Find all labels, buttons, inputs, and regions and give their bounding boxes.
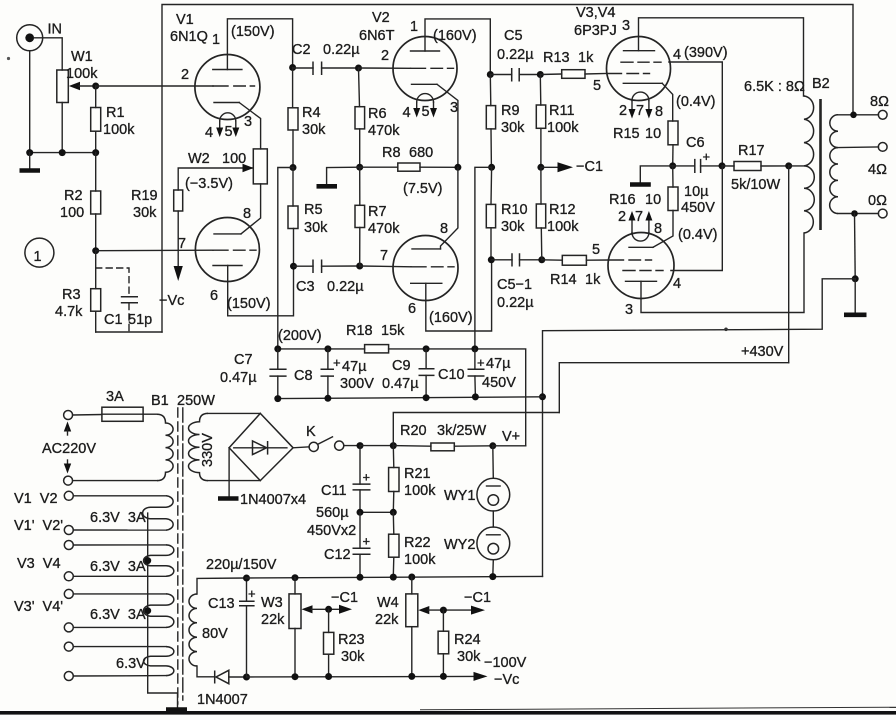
wire +430V horizontal <box>559 363 788 413</box>
R7 leads <box>359 167 361 266</box>
node C11 top <box>357 442 364 449</box>
C6 leads <box>673 165 722 167</box>
svg-text:3k/25W: 3k/25W <box>437 423 486 439</box>
svg-text:560µ: 560µ <box>316 505 349 521</box>
wire terminal 1 <box>73 495 166 497</box>
potentiometer W3 22k <box>261 594 301 629</box>
node V1b grid <box>92 247 99 254</box>
W3 leads <box>294 578 296 677</box>
svg-text:K: K <box>306 424 316 440</box>
svg-text:R20: R20 <box>400 423 427 439</box>
svg-text:C7: C7 <box>234 352 253 368</box>
wire W2 bottom to V1b plate pin 8 <box>241 184 261 234</box>
svg-text:7: 7 <box>178 236 186 252</box>
wire 0 ohm to ground node <box>854 214 857 279</box>
resistor R11 100k <box>536 103 579 136</box>
pentode V3 6P3PJ upper <box>574 5 728 120</box>
-C1 arrow at W4 <box>471 606 485 615</box>
wire R1 leads <box>95 86 97 153</box>
output jack WY2 <box>444 527 510 560</box>
svg-text:R17: R17 <box>738 143 765 159</box>
svg-text:+: + <box>477 355 485 370</box>
triode V2a 6N6T upper <box>359 10 477 121</box>
R22 leads <box>392 512 395 576</box>
svg-text:470k: 470k <box>368 123 400 139</box>
svg-text:R3: R3 <box>62 287 81 303</box>
B1 330V winding <box>189 413 209 480</box>
capacitor C2 0.22u <box>292 42 360 75</box>
V4 heater pin2 arrow <box>631 220 633 233</box>
node R11 R12 junction <box>537 164 544 171</box>
V2a plate bar <box>411 50 440 52</box>
filament winding C <box>144 594 174 628</box>
wire W4 wiper to -C1 <box>428 609 472 611</box>
resistor R24 30k <box>438 631 481 665</box>
node ground line on filter bus <box>539 393 546 400</box>
B2 core <box>819 99 822 230</box>
svg-text:4.7k: 4.7k <box>55 304 83 320</box>
filter bottom bus <box>278 397 543 399</box>
svg-text:30k: 30k <box>501 120 525 136</box>
svg-text:100k: 100k <box>404 552 436 568</box>
svg-text:8: 8 <box>654 221 662 237</box>
svg-text:R24: R24 <box>454 632 481 648</box>
AC220V arrows and label <box>42 422 96 474</box>
svg-text:C9: C9 <box>392 358 411 374</box>
wire terminal 8 <box>73 675 166 677</box>
circled numeral 1 <box>25 238 54 267</box>
W4 leads <box>411 577 413 676</box>
wire terminal 7 <box>73 646 166 648</box>
svg-text:−C1: −C1 <box>464 590 491 606</box>
C7 leads <box>277 349 279 399</box>
resistor R7 470k <box>355 204 400 237</box>
potentiometer W4 22k <box>375 594 418 628</box>
svg-text:−Vc: −Vc <box>494 672 519 688</box>
node R21 R22 mid <box>390 509 397 516</box>
-Vc rail arrow <box>474 672 488 681</box>
R5 leads <box>292 168 295 267</box>
wire 8 ohm tap <box>838 114 879 116</box>
W3 wiper arrow <box>302 605 313 613</box>
svg-text:W4: W4 <box>377 595 399 611</box>
svg-text:5: 5 <box>225 124 233 140</box>
svg-text:0.22µ: 0.22µ <box>497 295 534 311</box>
B1 primary winding <box>157 414 173 480</box>
pentode V4 6P3PJ lower <box>592 209 718 318</box>
svg-text:5k/10W: 5k/10W <box>731 177 780 193</box>
R11 leads <box>539 75 542 168</box>
output jack WY1 <box>444 478 510 511</box>
svg-text:3: 3 <box>450 100 458 116</box>
node R9 R10 junction <box>488 164 495 171</box>
V4 plate lead pin 3 to primary bottom <box>641 233 804 313</box>
svg-text:450V: 450V <box>482 375 516 391</box>
svg-text:R13: R13 <box>543 50 570 66</box>
svg-text:R8: R8 <box>382 145 401 161</box>
svg-text:(−3.5V): (−3.5V) <box>185 176 233 192</box>
node W3 bottom <box>292 673 299 680</box>
svg-text:100k: 100k <box>547 219 579 235</box>
svg-text:(390V): (390V) <box>684 45 728 61</box>
svg-text:0.22µ: 0.22µ <box>497 47 534 63</box>
capacitor C9 0.47u <box>382 358 435 392</box>
node C11 C12 mid <box>357 509 364 516</box>
node R23 bottom <box>325 673 332 680</box>
svg-text:100: 100 <box>222 151 246 167</box>
R6 leads <box>359 68 360 167</box>
svg-text:R11: R11 <box>549 103 575 119</box>
resistor R9 30k <box>486 103 525 136</box>
svg-text:7: 7 <box>636 103 644 119</box>
resistor R5 30k <box>288 202 328 236</box>
V4 screen wire pin 4 <box>671 166 722 271</box>
capacitor C1 51p dashed branch <box>96 268 153 331</box>
scan speck mid <box>724 328 728 332</box>
W2 wiper arrow <box>243 164 254 172</box>
node C9 bottom <box>423 394 430 401</box>
resistor R6 470k <box>355 106 400 139</box>
svg-text:R7: R7 <box>368 204 387 220</box>
wire diode to C13 bottom node <box>229 676 247 678</box>
resistor R12 100k <box>536 202 579 235</box>
capacitor C5 0.22u <box>497 28 534 82</box>
node primary centre tap <box>785 162 792 169</box>
node R10 bottom / C5-1 left <box>488 256 495 263</box>
V3 cathode lead pin 8 to R15 <box>662 83 673 121</box>
C13 leads <box>246 578 248 677</box>
svg-text:2: 2 <box>618 209 626 225</box>
wire R3 C1 bottom to feedback line <box>96 331 162 333</box>
svg-text:(0.4V): (0.4V) <box>678 227 718 243</box>
svg-text:6.3V 3A: 6.3V 3A <box>90 510 146 526</box>
bottom scan border <box>0 711 896 715</box>
wire raw B+ to 430V riser <box>393 413 559 446</box>
svg-text:(160V): (160V) <box>429 310 473 326</box>
svg-text:330V: 330V <box>200 433 216 467</box>
svg-text:B2: B2 <box>812 76 830 92</box>
R20 leads <box>393 445 493 448</box>
C8 leads <box>327 349 329 398</box>
svg-text:+430V: +430V <box>741 344 784 360</box>
node C7 bottom <box>274 395 281 402</box>
C12 leads <box>359 512 361 577</box>
svg-text:30k: 30k <box>304 220 328 236</box>
svg-text:0Ω: 0Ω <box>868 193 887 209</box>
node C5 right / R11 / R13 <box>537 71 544 78</box>
node W3 top <box>292 574 299 581</box>
B1 80V winding <box>189 594 197 666</box>
node 0 ohm tap <box>851 210 858 217</box>
wire R2 leads <box>95 153 97 251</box>
wire WY2 to ground bus <box>492 560 495 577</box>
node W4 top <box>408 574 415 581</box>
svg-text:0.22µ: 0.22µ <box>323 42 360 58</box>
node R5 bottom / C3 left <box>290 263 297 270</box>
junction dots ground bus <box>26 149 33 156</box>
-Vc arrow <box>174 266 183 281</box>
svg-text:100k: 100k <box>103 122 135 138</box>
svg-text:450V: 450V <box>681 200 715 216</box>
V1b cathode bar <box>213 265 242 267</box>
svg-text:1: 1 <box>34 249 42 265</box>
filament winding D <box>144 647 174 676</box>
W4 wiper arrow <box>418 606 429 614</box>
R16 top lead <box>672 166 674 187</box>
V1a heater arc <box>220 113 236 121</box>
resistor R4 30k <box>288 105 326 138</box>
capacitor C6 10u 450V <box>681 135 715 216</box>
wire node to V1 pin 7 <box>96 249 213 252</box>
terminal 4 ohm <box>868 143 887 179</box>
svg-text:V+: V+ <box>502 429 520 445</box>
capacitor C8 47u 300V <box>294 355 374 392</box>
wire junction to 200V rail <box>278 168 293 349</box>
svg-text:4: 4 <box>673 47 681 63</box>
filament terminal 3 <box>64 541 73 550</box>
svg-text:4: 4 <box>673 276 681 292</box>
V3 screen wire pin 4 <box>669 62 722 166</box>
svg-text:30k: 30k <box>457 649 481 665</box>
wire 0 ohm tap <box>838 213 879 215</box>
triode V2b 6N6T lower <box>380 221 473 326</box>
svg-text:1k: 1k <box>578 50 594 66</box>
node R6 R7 ground junction <box>356 164 363 171</box>
wire W1 bottom down <box>61 103 63 153</box>
resistor R17 5k 10W <box>731 143 780 193</box>
wire 80V top to bus <box>197 578 246 594</box>
V1b plate bar <box>214 233 241 235</box>
wire raw B+ <box>360 445 393 447</box>
svg-text:470k: 470k <box>368 221 400 237</box>
capacitor C12 560u <box>324 534 371 564</box>
svg-text:R4: R4 <box>302 105 321 121</box>
svg-text:8: 8 <box>440 221 448 237</box>
wire 80V bottom to diode <box>197 666 215 677</box>
wire W1 wiper to grid node <box>79 85 96 87</box>
svg-text:(150V): (150V) <box>227 296 271 312</box>
V4 heater pin7 arrow <box>648 220 650 233</box>
node C9 top <box>423 345 430 352</box>
svg-text:6.3V 3A: 6.3V 3A <box>90 559 146 575</box>
terminal 8 ohm <box>870 94 889 119</box>
svg-text:R18: R18 <box>346 323 373 339</box>
svg-text:V1: V1 <box>176 12 194 28</box>
wire fuse to B1 primary <box>143 413 157 415</box>
C5-1 leads <box>491 259 542 261</box>
filament terminal 2 <box>64 526 73 535</box>
resistor R14 1k <box>550 255 601 288</box>
svg-text:(160V): (160V) <box>433 28 477 44</box>
resistor R16 10 <box>609 187 678 211</box>
bridge rectifier 1N4007x4 <box>229 413 306 508</box>
svg-text:V1 V2: V1 V2 <box>14 491 58 507</box>
wire terminal 4 <box>73 575 166 577</box>
resistor R22 100k <box>389 534 437 568</box>
svg-text:300V: 300V <box>340 376 374 392</box>
svg-text:1N4007x4: 1N4007x4 <box>240 492 306 508</box>
W1 wiper arrow <box>69 82 80 90</box>
V2b plate bar <box>412 248 441 250</box>
wire terminal 5 <box>73 593 166 595</box>
V2a heater arc <box>417 94 434 102</box>
C9 leads <box>425 349 427 398</box>
resistor R1 100k <box>91 105 135 138</box>
svg-text:2: 2 <box>619 103 627 119</box>
potentiometer W2 100 <box>185 149 267 192</box>
C5 leads <box>490 74 540 76</box>
svg-text:R1: R1 <box>106 105 125 121</box>
fuse 3A <box>102 389 143 421</box>
V1b grid dashes <box>213 249 256 251</box>
triode V1b 6N1Q lower <box>178 206 271 312</box>
V1a heater pin 5 arrow <box>235 121 237 130</box>
svg-text:C10: C10 <box>438 367 465 383</box>
svg-text:680: 680 <box>409 145 433 161</box>
svg-text:+: + <box>363 470 371 485</box>
V3 heater arc <box>632 92 649 100</box>
svg-text:+: + <box>333 355 341 370</box>
capacitor C5-1 0.22u <box>497 253 534 311</box>
svg-text:6.5K : 8Ω: 6.5K : 8Ω <box>744 79 805 95</box>
R9 leads <box>490 75 491 168</box>
V4 plate bar <box>626 280 657 282</box>
V2a plate lead to C5 node <box>425 19 490 75</box>
svg-text:−C1: −C1 <box>331 590 358 606</box>
resistor R15 10 <box>613 121 678 145</box>
svg-text:(7.5V): (7.5V) <box>403 181 443 197</box>
R4 leads <box>292 68 294 168</box>
svg-text:100k: 100k <box>404 483 436 499</box>
wire C11 C12 midpoint <box>360 511 393 513</box>
svg-text:1N4007: 1N4007 <box>197 692 248 708</box>
node C8 top <box>324 345 331 352</box>
capacitor C13 <box>202 586 256 642</box>
V1a cathode lead to pin 3 and W2 <box>239 103 260 149</box>
node C10 bottom <box>472 393 479 400</box>
B+ rail 200V bus <box>278 349 526 446</box>
svg-text:250W: 250W <box>177 393 215 409</box>
wire 330V bottom to bridge <box>208 480 260 482</box>
AC terminal top <box>64 411 73 420</box>
wire V plus to filter rail riser <box>493 445 526 447</box>
ground symbol bridge <box>228 448 230 497</box>
svg-text:R6: R6 <box>368 106 387 122</box>
V2b cathode route 160V to C5-1 node <box>426 260 492 331</box>
svg-text:C2: C2 <box>292 42 311 58</box>
svg-text:(0.4V): (0.4V) <box>676 94 716 110</box>
svg-text:W2: W2 <box>188 151 210 167</box>
svg-text:−Vc: −Vc <box>159 293 184 309</box>
wire junction to C10 node <box>475 167 492 349</box>
svg-text:6N6T: 6N6T <box>359 28 395 44</box>
capacitor C10 47u 450V <box>438 355 516 391</box>
potentiometer W1 100k <box>57 49 98 103</box>
svg-text:R22: R22 <box>404 535 431 551</box>
ground symbol secondary <box>854 279 856 313</box>
node R21 top raw B+ <box>390 442 397 449</box>
ground symbol input <box>29 153 31 169</box>
svg-text:15k: 15k <box>381 323 405 339</box>
ground bus PSU lower <box>246 576 543 578</box>
svg-text:6: 6 <box>408 301 416 317</box>
node tap winding B <box>144 557 151 564</box>
svg-text:22k: 22k <box>261 612 285 628</box>
R12 leads <box>540 167 543 259</box>
resistor R21 100k <box>389 466 437 499</box>
wire terminal 2 <box>73 529 166 531</box>
node C6 left <box>669 162 676 169</box>
diode 1N4007 negative rail <box>197 670 248 708</box>
wire jack shell to ground bus <box>29 51 31 153</box>
svg-text:10: 10 <box>645 192 661 208</box>
svg-text:(150V): (150V) <box>231 24 275 40</box>
svg-text:8: 8 <box>243 206 251 222</box>
-C1 arrow mid row <box>541 166 559 168</box>
wire AC top to fuse <box>73 414 102 417</box>
svg-text:6: 6 <box>210 288 218 304</box>
AC terminal bottom <box>64 476 73 485</box>
wire R3 leads <box>95 251 97 332</box>
svg-text:C11: C11 <box>321 483 347 499</box>
svg-text:AC220V: AC220V <box>42 441 96 457</box>
node 200V C7 <box>274 345 281 352</box>
wire to V2 pin 7 <box>360 265 411 268</box>
wire R19 to -Vc arrow <box>177 211 179 268</box>
svg-text:R21: R21 <box>404 466 431 482</box>
wire WY1 to WY2 <box>492 511 494 527</box>
svg-text:C13: C13 <box>208 596 235 612</box>
node wiper W4 R24 <box>440 607 447 614</box>
node C13 top <box>243 575 250 582</box>
V4 grid dashes <box>609 259 652 261</box>
svg-text:100k: 100k <box>547 120 579 136</box>
resistor R10 30k <box>486 202 527 235</box>
svg-text:(200V): (200V) <box>278 328 322 344</box>
svg-text:6N1Q: 6N1Q <box>170 29 208 45</box>
svg-text:30k: 30k <box>501 219 525 235</box>
V3 plate lead to B2 primary top <box>639 18 805 96</box>
svg-text:B1: B1 <box>151 393 169 409</box>
wire WY1 feed <box>492 446 495 478</box>
resistor R23 30k <box>324 632 366 665</box>
svg-text:IN: IN <box>48 22 63 38</box>
svg-text:V2: V2 <box>372 10 390 26</box>
filament centre tap bus <box>148 513 178 708</box>
wire to V2 pin 2 <box>359 67 411 69</box>
svg-text:R12: R12 <box>549 202 576 218</box>
svg-text:47µ: 47µ <box>342 359 367 375</box>
svg-text:0.47µ: 0.47µ <box>220 370 257 386</box>
resistor R19 30k <box>131 188 183 221</box>
V2a grid dashes <box>411 67 454 69</box>
node grid V1a <box>92 83 99 90</box>
node secondary ground <box>852 275 859 282</box>
svg-text:V1' V2': V1' V2' <box>14 518 63 534</box>
svg-text:6P3PJ: 6P3PJ <box>574 23 617 39</box>
svg-text:51p: 51p <box>128 312 152 328</box>
svg-text:C12: C12 <box>324 547 351 563</box>
svg-text:R10: R10 <box>501 202 528 218</box>
wire 330V top to bridge <box>208 412 260 414</box>
ground stub at R6 R7 <box>327 167 360 185</box>
svg-text:30k: 30k <box>133 205 157 221</box>
svg-text:R9: R9 <box>501 103 520 119</box>
filament terminal 6 <box>64 623 73 632</box>
svg-text:22k: 22k <box>375 612 399 628</box>
node C6 right screen rail <box>719 162 726 169</box>
svg-text:100k: 100k <box>66 66 98 82</box>
